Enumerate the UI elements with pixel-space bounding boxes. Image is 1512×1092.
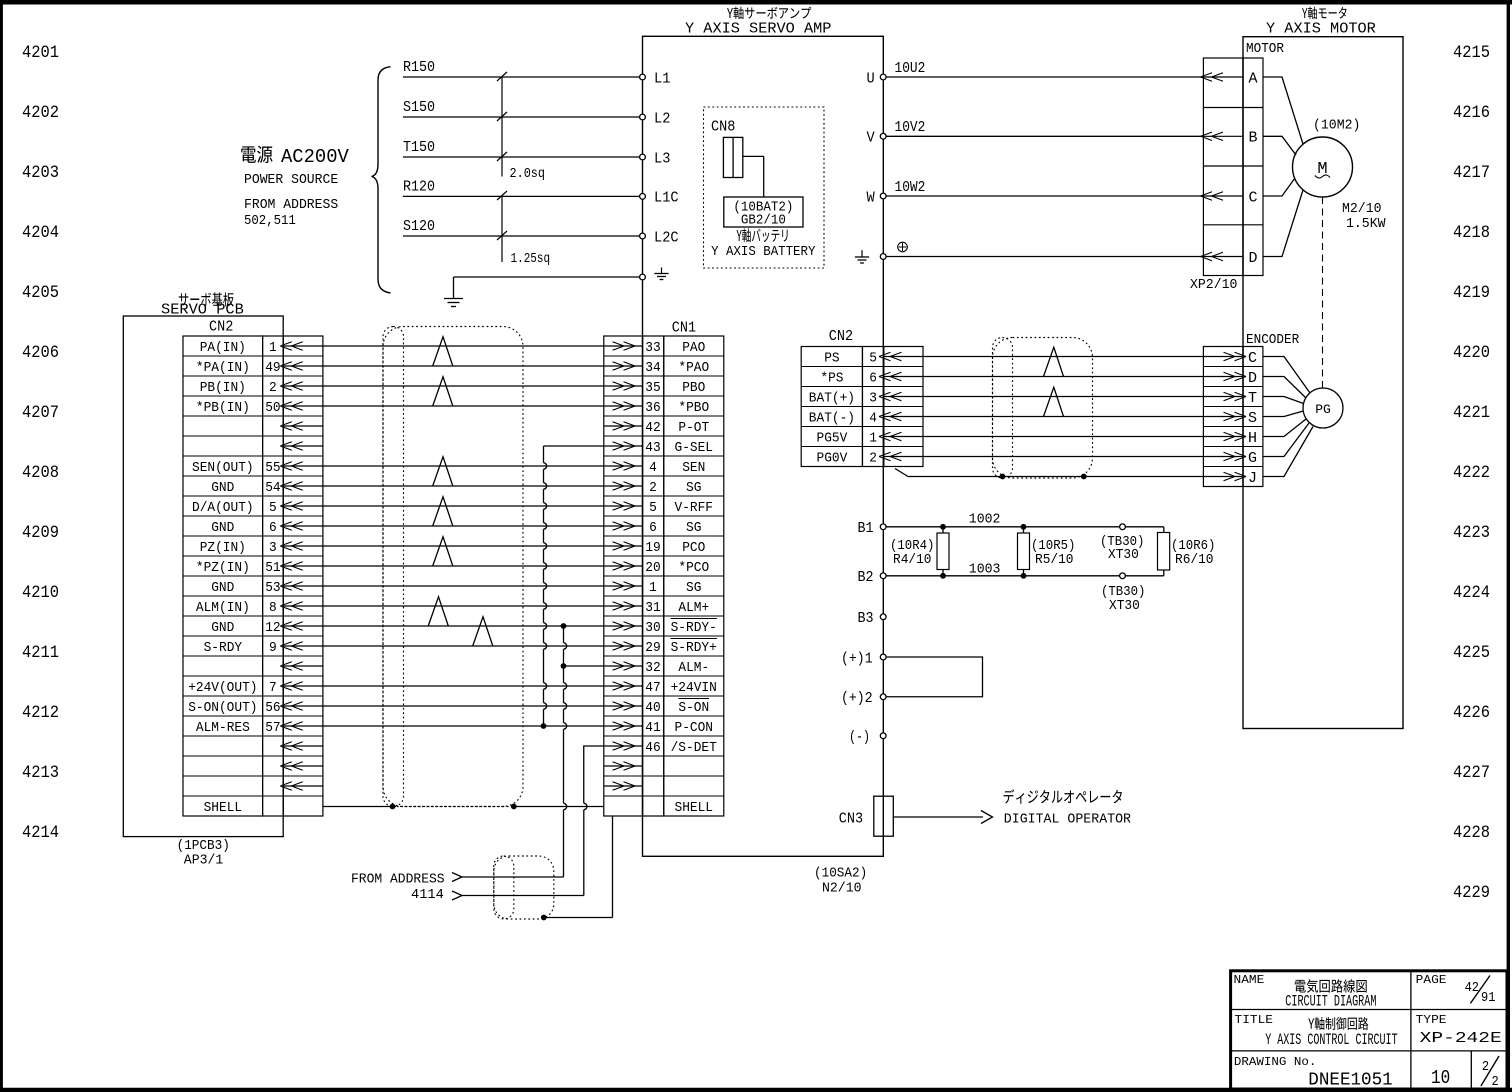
- svg-text:Y AXIS BATTERY: Y AXIS BATTERY: [711, 244, 816, 260]
- arrow from address wire 2: [452, 891, 584, 900]
- wire CN2 PS to encoder C: [923, 356, 1203, 358]
- CN1 arrow row 0: [604, 345, 642, 347]
- bus wire S-RDY- ALM- to FROM ADDRESS: [563, 626, 565, 643]
- svg-text:47: 47: [645, 680, 660, 696]
- svg-text:43: 43: [645, 440, 660, 456]
- svg-text:GND: GND: [211, 620, 234, 636]
- svg-text:C: C: [1249, 189, 1258, 206]
- svg-text:XP-242E: XP-242E: [1420, 1030, 1502, 1047]
- right margin line numbers 4215-4229: [1453, 43, 1490, 903]
- CN2 pin PG5V 1: [817, 431, 924, 447]
- svg-text:SG: SG: [686, 520, 701, 536]
- wire encoder G to PG: [1263, 423, 1309, 457]
- encoder pin G: [1204, 450, 1257, 467]
- svg-text:54: 54: [265, 480, 280, 496]
- twisted pair symbol at y466: [433, 457, 453, 486]
- pcb pin SHELL: [204, 800, 243, 816]
- svg-text:R6/10: R6/10: [1175, 553, 1214, 568]
- svg-text:(10R5): (10R5): [1031, 539, 1075, 554]
- svg-text:1.25sq: 1.25sq: [511, 251, 551, 267]
- wire B1: [886, 526, 1164, 528]
- svg-text:R4/10: R4/10: [893, 553, 932, 568]
- pcb arrow row 6: [284, 465, 323, 467]
- motor pin D: [1201, 250, 1258, 267]
- encoder PG circle: [1303, 388, 1343, 428]
- terminal ground output: [855, 250, 886, 263]
- svg-text:1: 1: [649, 580, 657, 596]
- svg-text:19: 19: [645, 540, 660, 556]
- svg-text:B2: B2: [858, 570, 874, 586]
- CN1 pin 40 S-ON: [645, 699, 709, 717]
- svg-text:G-SEL: G-SEL: [675, 440, 714, 456]
- svg-text:4114: 4114: [411, 887, 444, 903]
- svg-text:5: 5: [649, 500, 657, 516]
- svg-text:3: 3: [869, 391, 877, 407]
- svg-text:4213: 4213: [22, 763, 59, 783]
- svg-text:SG: SG: [686, 480, 701, 496]
- svg-text:(10R6): (10R6): [1171, 539, 1215, 554]
- svg-text:ALM+: ALM+: [678, 600, 709, 616]
- CN1 arrow row 17: [604, 685, 642, 687]
- svg-text:H: H: [1248, 430, 1257, 447]
- svg-text:4205: 4205: [22, 283, 59, 303]
- svg-text:B: B: [1249, 130, 1258, 147]
- svg-text:AC200V: AC200V: [281, 146, 349, 168]
- pcb arrow row 20: [284, 745, 323, 747]
- svg-text:29: 29: [645, 640, 660, 656]
- svg-text:CN2: CN2: [829, 329, 853, 345]
- pcb pin GND 54: [211, 480, 280, 496]
- terminal (+)2: [841, 691, 886, 707]
- svg-text:CN2: CN2: [209, 320, 233, 336]
- servo amp enclosure box: [643, 36, 884, 856]
- CN1 arrow row 9: [604, 525, 642, 527]
- CN2 pin *PS 6: [820, 371, 923, 387]
- svg-text:A: A: [1249, 70, 1258, 87]
- power source brace: [372, 67, 391, 293]
- encoder pin C: [1204, 350, 1257, 367]
- left margin line numbers 4201-4214: [22, 43, 59, 843]
- svg-text:91: 91: [1481, 991, 1495, 1006]
- wire encoder S to PG: [1263, 411, 1303, 417]
- CN1 pin 41 P-CON: [645, 720, 713, 736]
- svg-text:P-CON: P-CON: [675, 720, 714, 736]
- svg-text:*PZ(IN): *PZ(IN): [196, 560, 250, 576]
- svg-text:41: 41: [645, 720, 660, 736]
- svg-text:31: 31: [645, 600, 660, 616]
- CN1 pin 32 ALM-: [645, 660, 709, 676]
- arrow to digital operator: [893, 811, 992, 824]
- svg-text:M2/10: M2/10: [1342, 201, 1382, 217]
- pcb arrow row 7: [284, 485, 323, 487]
- CN1 pin 1 SG: [649, 580, 701, 596]
- wire encoder shield J: [895, 469, 1203, 477]
- CN1 pin 46 /S-DET: [645, 740, 717, 756]
- encoder pin S: [1204, 410, 1257, 427]
- CN2 pin BAT(-) 4: [809, 411, 923, 427]
- svg-text:PB(IN): PB(IN): [200, 380, 246, 396]
- svg-text:GB2/10: GB2/10: [741, 213, 786, 229]
- CN1 arrow row 22: [604, 785, 642, 787]
- CN1 pin 43 G-SEL: [645, 440, 713, 456]
- twisted pair BAT: [1044, 387, 1064, 416]
- svg-text:MOTOR: MOTOR: [1246, 42, 1284, 57]
- svg-text:4221: 4221: [1453, 403, 1490, 423]
- wire CN2 *PS to encoder D: [923, 376, 1203, 378]
- svg-text:ENCODER: ENCODER: [1246, 333, 1299, 348]
- svg-text:PBO: PBO: [682, 380, 705, 396]
- svg-text:55: 55: [265, 460, 280, 476]
- title block DRAWING No. DNEE1051: [1234, 1055, 1393, 1091]
- twisted pair symbol at y626: [473, 617, 493, 646]
- label Y AXIS BATTERY: [711, 228, 816, 259]
- pcb pin *PZ(IN) 51: [196, 560, 281, 576]
- svg-text:53: 53: [265, 580, 280, 596]
- svg-text:51: 51: [265, 560, 280, 576]
- label Y AXIS SERVO AMP: [685, 7, 831, 38]
- pcb pin PZ(IN) 3: [200, 540, 277, 556]
- motor M1 (10M2): [1293, 118, 1361, 198]
- svg-text:10: 10: [1431, 1067, 1450, 1089]
- wire CN2 PG0V to encoder G: [923, 456, 1203, 458]
- wire B2: [886, 575, 1164, 577]
- svg-text:40: 40: [645, 700, 660, 716]
- left harness shield inner lobe: [383, 327, 404, 807]
- svg-text:P-OT: P-OT: [678, 420, 709, 436]
- svg-text:4229: 4229: [1453, 883, 1490, 903]
- svg-text:1002: 1002: [969, 512, 1001, 528]
- encoder pin D: [1204, 370, 1257, 387]
- terminal B2: [858, 570, 887, 586]
- title block sheet 2/2: [1481, 1056, 1499, 1090]
- svg-text:4207: 4207: [22, 403, 59, 423]
- svg-text:DRAWING No.: DRAWING No.: [1234, 1055, 1317, 1069]
- svg-text:20: 20: [645, 560, 660, 576]
- svg-text:S120: S120: [403, 219, 435, 235]
- svg-text:2: 2: [869, 451, 877, 467]
- terminal W: [867, 189, 887, 206]
- battery GB2/10 (10BAT2): [724, 197, 803, 229]
- svg-text:6: 6: [649, 520, 657, 536]
- CN1 pin 20 *PCO: [645, 560, 709, 576]
- resistor R6/10 (10R6): [1158, 527, 1216, 576]
- terminal (+)1: [841, 652, 886, 668]
- CN1 arrow row 2: [604, 385, 642, 387]
- terminal V: [867, 130, 887, 147]
- label M2/10 1.5KW: [1342, 201, 1386, 232]
- wire 10V2 phase to motor: [886, 120, 1203, 136]
- arrow from address wire 1: [452, 873, 564, 882]
- svg-text:S-RDY: S-RDY: [204, 640, 243, 656]
- CN1 arrow row 20: [604, 745, 642, 747]
- svg-text:4225: 4225: [1453, 643, 1490, 663]
- title block NAME CIRCUIT DIAGRAM: [1234, 973, 1377, 1010]
- pcb pin SEN(OUT) 55: [192, 460, 281, 476]
- svg-text:R120: R120: [403, 180, 435, 196]
- title block: [1231, 971, 1507, 1089]
- svg-text:FROM ADDRESS: FROM ADDRESS: [351, 872, 445, 888]
- encoder pin H: [1204, 430, 1257, 447]
- svg-text:DNEE1051: DNEE1051: [1308, 1071, 1392, 1091]
- wire CN2 row 3 to CN1: [323, 405, 604, 407]
- svg-text:8: 8: [269, 600, 277, 616]
- wire CN2 row 12 to CN1: [323, 585, 604, 587]
- pcb pin ALM(IN) 8: [196, 600, 277, 616]
- svg-text:*PBO: *PBO: [678, 400, 709, 416]
- motor pin B: [1201, 130, 1258, 147]
- protective earth symbol on wire: [898, 242, 908, 252]
- junction P-CON: [541, 723, 547, 729]
- wire ALM- stub: [564, 665, 604, 667]
- wire /S-DET from address 4114: [584, 746, 604, 803]
- wire CN2 row 19 to CN1: [323, 725, 604, 727]
- junction ALM-: [561, 663, 567, 669]
- svg-text:B1: B1: [858, 521, 874, 537]
- label (1PCB3) AP3/1: [177, 838, 230, 869]
- svg-text:PZ(IN): PZ(IN): [200, 540, 246, 556]
- svg-text:4227: 4227: [1453, 763, 1490, 783]
- pcb pin GND 53: [211, 580, 280, 596]
- svg-text:XT30: XT30: [1108, 548, 1139, 563]
- terminal U: [867, 70, 887, 87]
- wire CN2 row 0 to CN1: [323, 345, 604, 347]
- wire encoder H to PG: [1263, 419, 1306, 437]
- CN1 arrow row 6: [604, 465, 642, 467]
- svg-text:3: 3: [269, 540, 277, 556]
- CN1 pin 31 ALM+: [645, 600, 709, 616]
- svg-text:6: 6: [269, 520, 277, 536]
- svg-text:Y AXIS MOTOR: Y AXIS MOTOR: [1266, 21, 1376, 38]
- motor enclosure box: [1243, 37, 1403, 729]
- svg-text:4209: 4209: [22, 523, 59, 543]
- svg-text:4202: 4202: [22, 103, 59, 123]
- svg-text:CN1: CN1: [672, 321, 696, 337]
- label POWER SOURCE AC200V: [241, 146, 349, 229]
- svg-text:L3: L3: [654, 150, 670, 167]
- svg-text:502,511: 502,511: [244, 213, 296, 229]
- wire CN2 row 8 to CN1: [323, 505, 604, 507]
- svg-text:PAGE: PAGE: [1416, 973, 1447, 987]
- svg-text:4222: 4222: [1453, 463, 1490, 483]
- terminal L3: [640, 150, 671, 167]
- svg-text:4208: 4208: [22, 463, 59, 483]
- title block PAGE 42/91: [1416, 973, 1496, 1006]
- wire motor D to windings: [1263, 190, 1303, 257]
- label FROM ADDRESS 4114: [351, 872, 445, 904]
- resistor R5/10 (10R5): [1018, 524, 1076, 579]
- svg-text:FROM ADDRESS: FROM ADDRESS: [244, 197, 338, 213]
- servo amp CN1 connector table: [604, 336, 724, 816]
- svg-text:6: 6: [869, 371, 877, 387]
- pcb arrow row 15: [284, 645, 323, 647]
- pcb pin GND 6: [211, 520, 277, 536]
- cable size tick 1.25sq: [497, 191, 550, 267]
- svg-text:4217: 4217: [1453, 163, 1490, 183]
- svg-text:4223: 4223: [1453, 523, 1490, 543]
- title block TYPE XP-242E: [1416, 1013, 1502, 1047]
- wire encoder T to PG: [1263, 397, 1304, 404]
- svg-text:GND: GND: [211, 520, 234, 536]
- bus wire /S-DET to 4114: [583, 810, 585, 896]
- svg-text:L2C: L2C: [654, 229, 679, 246]
- motor connector XP2/10 table: [1203, 58, 1263, 276]
- title block TITLE Y AXIS CONTROL CIRCUIT: [1235, 1013, 1398, 1049]
- svg-text:10U2: 10U2: [895, 61, 926, 77]
- wire motor A to windings: [1263, 77, 1303, 144]
- pcb arrow row 11: [284, 565, 323, 567]
- svg-text:GND: GND: [211, 480, 234, 496]
- svg-text:10V2: 10V2: [895, 120, 926, 136]
- servo amp CN2 connector table: [801, 347, 923, 467]
- svg-text:50: 50: [265, 400, 280, 416]
- pcb arrow row 3: [284, 405, 323, 407]
- svg-text:*PB(IN): *PB(IN): [196, 400, 250, 416]
- svg-text:2: 2: [269, 380, 277, 396]
- wire 10U2 phase to motor: [886, 61, 1203, 77]
- battery dashed enclosure: [704, 107, 825, 268]
- svg-text:SHELL: SHELL: [204, 800, 243, 816]
- CN1 pin 4 SEN: [649, 460, 705, 476]
- pcb arrow row 21: [284, 765, 323, 767]
- svg-text:2: 2: [649, 480, 657, 496]
- svg-text:4211: 4211: [22, 643, 59, 663]
- wire CN2 row 7 to CN1: [323, 485, 604, 487]
- svg-text:5: 5: [869, 351, 877, 367]
- svg-text:Y AXIS SERVO AMP: Y AXIS SERVO AMP: [685, 21, 831, 38]
- svg-text:C: C: [1248, 350, 1257, 367]
- svg-text:S-ON(OUT): S-ON(OUT): [188, 700, 257, 716]
- svg-text:S-RDY-: S-RDY-: [671, 620, 717, 636]
- svg-text:PAO: PAO: [682, 340, 705, 356]
- svg-text:(-): (-): [849, 730, 870, 746]
- svg-text:CN8: CN8: [711, 120, 735, 136]
- svg-text:1: 1: [869, 431, 877, 447]
- svg-text:ALM-RES: ALM-RES: [196, 720, 250, 736]
- pcb pin ALM-RES 57: [196, 720, 281, 736]
- svg-text:1003: 1003: [969, 562, 1001, 578]
- svg-text:4214: 4214: [22, 823, 59, 843]
- wire CN2 row 11 to CN1: [323, 565, 604, 567]
- svg-text:9: 9: [269, 640, 277, 656]
- CN1 pin 19 PCO: [645, 540, 705, 556]
- servo pcb box AP3/1: [123, 292, 283, 836]
- svg-text:4203: 4203: [22, 163, 59, 183]
- svg-text:5: 5: [269, 500, 277, 516]
- terminal XT30 (TB30) upper: [1100, 524, 1144, 563]
- svg-text:S: S: [1248, 410, 1257, 427]
- wire CN2 row 10 to CN1: [323, 545, 604, 547]
- wire CN2 row 9 to CN1: [323, 525, 604, 527]
- wire ground to motor D: [886, 256, 1203, 258]
- wire CN2 row 15 to CN1: [323, 645, 604, 647]
- svg-text:+24V(OUT): +24V(OUT): [188, 680, 257, 696]
- dashed shaft link motor to encoder: [1322, 197, 1324, 388]
- svg-text:GND: GND: [211, 580, 234, 596]
- svg-text:+24VIN: +24VIN: [671, 680, 717, 696]
- wire CN2 row 14 to CN1: [323, 625, 604, 627]
- wire R150 to L1: [403, 60, 640, 77]
- wire CN2 row 17 to CN1: [323, 685, 604, 687]
- junction shield right: [511, 804, 517, 810]
- cable size tick 2.0sq: [497, 72, 545, 182]
- svg-text:NAME: NAME: [1234, 973, 1265, 987]
- CN1 pin 6 SG: [649, 520, 701, 536]
- twisted pair symbol at y386: [433, 377, 453, 406]
- terminal L1C: [640, 190, 679, 207]
- pcb pin *PA(IN) 49: [196, 360, 281, 376]
- svg-text:4216: 4216: [1453, 103, 1490, 123]
- CN2 pin PG0V 2: [817, 451, 924, 467]
- CN1 arrow row 18: [604, 705, 642, 707]
- svg-text:BAT(-): BAT(-): [809, 411, 855, 427]
- wire S120 to L2C: [403, 219, 640, 236]
- svg-text:(TB30): (TB30): [1101, 585, 1145, 600]
- wire motor B to windings: [1263, 136, 1296, 155]
- right harness shield outer: [993, 338, 1093, 479]
- junction S-RDY-: [561, 623, 567, 629]
- wire CN2 row 18 to CN1: [323, 705, 604, 707]
- svg-text:(10M2): (10M2): [1313, 118, 1360, 134]
- svg-text:7: 7: [269, 680, 277, 696]
- svg-text:(10R4): (10R4): [890, 539, 934, 554]
- CN1 pin 29 S-RDY+: [645, 639, 717, 657]
- svg-text:S150: S150: [403, 100, 435, 116]
- CN2 pin BAT(+) 3: [809, 391, 923, 407]
- pcb pin GND 12: [211, 620, 280, 636]
- CN1 arrow row 3: [604, 405, 642, 407]
- svg-text:PG0V: PG0V: [817, 451, 848, 467]
- svg-text:PS: PS: [824, 351, 839, 367]
- terminal B3: [858, 611, 887, 627]
- svg-text:V: V: [867, 130, 875, 147]
- svg-text:4210: 4210: [22, 583, 59, 603]
- terminal XT30 (TB30) lower: [1101, 573, 1145, 614]
- svg-text:PG5V: PG5V: [817, 431, 848, 447]
- pcb pin PA(IN) 1: [200, 340, 277, 356]
- svg-text:57: 57: [265, 720, 280, 736]
- encoder pin J: [1204, 470, 1257, 487]
- svg-text:1: 1: [269, 340, 277, 356]
- svg-text:4219: 4219: [1453, 283, 1490, 303]
- svg-text:56: 56: [265, 700, 280, 716]
- svg-text:1.5KW: 1.5KW: [1346, 216, 1386, 232]
- svg-text:10W2: 10W2: [895, 180, 926, 196]
- svg-text:W: W: [867, 189, 875, 206]
- svg-text:(10SA2): (10SA2): [814, 866, 867, 882]
- svg-text:PCO: PCO: [682, 540, 705, 556]
- motor pin C: [1201, 189, 1258, 206]
- svg-text:49: 49: [265, 360, 280, 376]
- pcb arrow row 17: [284, 685, 323, 687]
- svg-text:33: 33: [645, 340, 660, 356]
- CN1 pin 33 PAO: [645, 340, 705, 356]
- svg-text:T150: T150: [403, 140, 435, 156]
- label Y AXIS MOTOR: [1266, 7, 1376, 38]
- connector CN3: [839, 796, 894, 836]
- pcb arrow row 14: [284, 625, 323, 627]
- CN1 arrow row 10: [604, 545, 642, 547]
- svg-text:4206: 4206: [22, 343, 59, 363]
- svg-text:XT30: XT30: [1109, 599, 1140, 614]
- bus wire G-SEL to P-CON: [543, 446, 545, 463]
- pcb arrow row 12: [284, 585, 323, 587]
- svg-text:4218: 4218: [1453, 223, 1490, 243]
- CN1 pin 5 V-RFF: [649, 500, 713, 516]
- pcb pin D/A(OUT) 5: [192, 500, 277, 516]
- wire CN2 row 13 to CN1: [323, 605, 604, 607]
- wire 10W2 phase to motor: [886, 180, 1203, 196]
- terminal L2: [640, 110, 671, 127]
